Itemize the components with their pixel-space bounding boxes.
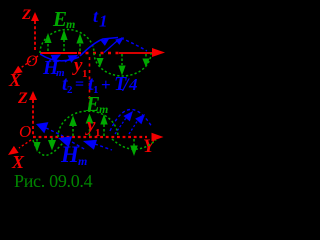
- Z axis arrow (bottom diagram): [29, 91, 37, 136]
- svg-text:m: m: [99, 102, 108, 116]
- Y axis dotted segment (bottom diagram): [33, 136, 147, 138]
- H vector arrow below axis 2 (bottom diagram): [83, 140, 112, 150]
- svg-text:H: H: [60, 142, 80, 167]
- E vector arrow 4 down: [96, 54, 103, 67]
- svg-text:+: +: [101, 75, 111, 94]
- E envelope upper half-wave (bottom diagram): [58, 111, 118, 137]
- E_m label (top diagram): [52, 7, 75, 31]
- E vector arrow 1 up: [44, 33, 51, 51]
- E envelope below axis right (bottom diagram): [112, 139, 156, 149]
- E vector arrow down b (bottom diagram): [48, 138, 56, 151]
- H vector arrow above axis 2 (bottom diagram): [129, 114, 145, 134]
- caption Ris. 09.0.4: [14, 171, 93, 191]
- svg-text:E: E: [52, 7, 67, 31]
- origin label O (bottom diagram): [19, 122, 31, 141]
- E vector arrow up a (bottom diagram): [69, 116, 77, 137]
- svg-text:m: m: [78, 154, 87, 168]
- E envelope below axis left (bottom diagram): [33, 138, 66, 155]
- y1 dashed guide line: [89, 57, 91, 114]
- svg-text:4: 4: [128, 75, 138, 94]
- H envelope rising arc (top diagram): [80, 38, 118, 57]
- E vector arrow 5 down: [118, 54, 125, 76]
- svg-text:=: =: [75, 76, 84, 93]
- H envelope arc (bottom diagram): [110, 109, 152, 131]
- X axis (top diagram): [13, 56, 38, 74]
- svg-text:Z: Z: [17, 90, 28, 107]
- formula t2 = t1 + T/4: [62, 73, 138, 96]
- Z axis label (top diagram): [21, 7, 31, 23]
- E vector arrow 3 up: [76, 34, 83, 52]
- svg-text:X: X: [11, 152, 25, 172]
- Z axis label (bottom diagram): [17, 90, 28, 107]
- H vector arrow L1: [49, 55, 61, 63]
- E vector arrow down a (bottom diagram): [33, 139, 40, 152]
- H vector arrow R2: [104, 37, 124, 53]
- H vector arrow near origin (bottom diagram): [36, 122, 63, 136]
- svg-text:1: 1: [99, 12, 108, 31]
- Y axis solid segment left (top diagram): [40, 52, 77, 54]
- svg-text:X: X: [8, 70, 22, 90]
- y1 position label (bottom diagram): [85, 115, 101, 139]
- E vector arrow 2 up: [60, 30, 67, 52]
- Y axis solid segment right with arrow (top diagram): [119, 48, 165, 57]
- svg-text:O: O: [26, 53, 38, 70]
- Y axis arrow (bottom diagram): [152, 133, 164, 141]
- svg-text:1: 1: [95, 127, 101, 139]
- time label t1 (top diagram): [93, 6, 108, 31]
- X axis (bottom diagram): [8, 140, 31, 155]
- svg-text:Z: Z: [21, 7, 31, 23]
- E_m label (bottom diagram): [85, 92, 108, 116]
- H envelope dashed descending arc (top diagram): [121, 38, 147, 51]
- E vector arrow down c (bottom diagram): [130, 139, 138, 156]
- svg-text:O: O: [19, 122, 31, 141]
- X axis label (top diagram): [8, 70, 22, 90]
- E vector arrow up c (bottom diagram): [100, 114, 107, 136]
- E vector arrow up b (bottom diagram): [86, 114, 94, 137]
- H_m label (bottom diagram): [60, 142, 87, 168]
- origin label O (top diagram): [26, 53, 38, 70]
- svg-text:E: E: [85, 92, 100, 116]
- H_m label (top diagram): [42, 57, 65, 79]
- H vector arrow R1: [101, 38, 110, 46]
- H vector arrow below axis 1 (bottom diagram): [58, 136, 86, 150]
- svg-text:m: m: [66, 17, 75, 31]
- H vector arrow L2: [65, 55, 78, 63]
- H envelope below axis left (top diagram): [40, 54, 79, 61]
- Y axis label (bottom diagram): [143, 136, 157, 157]
- E vector arrow 6 down: [142, 54, 149, 68]
- Y axis dotted segment (top diagram): [78, 52, 119, 54]
- svg-text:2: 2: [67, 84, 73, 96]
- X axis label (bottom diagram): [11, 152, 25, 172]
- H vector arrow above axis 1 (bottom diagram): [115, 111, 133, 134]
- svg-text:Рис. 09.0.4: Рис. 09.0.4: [14, 171, 93, 191]
- E envelope lower half-wave (top diagram): [94, 53, 151, 76]
- y1 position label (top diagram): [72, 55, 88, 80]
- Z axis arrow (top diagram): [31, 12, 39, 51]
- E envelope upper half-wave (top diagram): [40, 30, 94, 54]
